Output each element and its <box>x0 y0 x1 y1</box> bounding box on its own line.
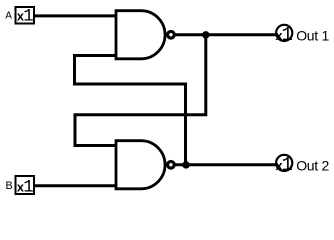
svg-text:Out 2: Out 2 <box>296 158 329 174</box>
svg-text:1: 1 <box>282 24 293 46</box>
svg-text:B: B <box>6 180 13 192</box>
svg-text:1: 1 <box>282 154 293 176</box>
svg-text:1: 1 <box>23 7 33 26</box>
svg-text:1: 1 <box>23 178 33 197</box>
svg-text:Out 1: Out 1 <box>296 28 329 44</box>
svg-text:A: A <box>5 11 12 22</box>
